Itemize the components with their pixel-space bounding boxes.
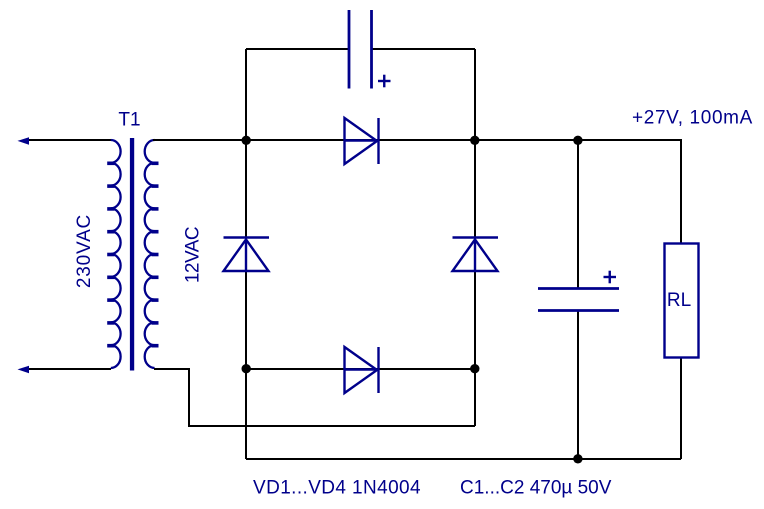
transformer T1 secondary winding	[145, 140, 155, 368]
node B junction (top right bridge)	[470, 136, 479, 145]
svg-text:12VAC: 12VAC	[183, 227, 204, 283]
diode VD2 (left, pointing up)	[224, 238, 270, 272]
wire: secondary top to node A	[153, 139, 246, 141]
wire: top loop right segment	[372, 48, 476, 50]
node junction C2 bottom	[573, 454, 582, 463]
node junction bottom left bridge	[242, 364, 251, 373]
polarity + of C1	[378, 75, 391, 88]
capacitor C1	[349, 10, 372, 89]
wire: right bridge leg vertical	[474, 49, 476, 426]
svg-text:RL: RL	[667, 290, 691, 311]
polarity + of C2	[604, 271, 617, 284]
node A junction (top left bridge)	[242, 136, 251, 145]
wire: bottom diode row	[246, 368, 475, 370]
diode VD3 (right, pointing up)	[453, 238, 499, 272]
wire: left bridge leg vertical	[245, 49, 247, 459]
node junction C2 top	[573, 136, 582, 145]
arrow terminal bottom-left	[18, 366, 30, 374]
wire: secondary bottom return	[154, 369, 475, 426]
wire: top rail node A to RL corner	[246, 140, 681, 244]
diode VD1 (top, pointing right)	[345, 118, 379, 164]
svg-text:T1: T1	[118, 110, 140, 131]
wire: mains top lead	[27, 139, 111, 141]
svg-text:VD1...VD4 1N4004: VD1...VD4 1N4004	[253, 478, 421, 499]
transformer T1 primary winding	[111, 140, 121, 368]
transformer T1 secondary cusp ticks	[152, 163, 159, 345]
diode VD4 (bottom, pointing right)	[345, 347, 379, 393]
svg-text:+27V, 100mA: +27V, 100mA	[632, 108, 753, 129]
wire: C2 top branch	[577, 140, 579, 289]
capacitor C2	[538, 289, 619, 311]
wire: C2 bottom branch	[577, 311, 579, 460]
svg-text:C1...C2 470µ 50V: C1...C2 470µ 50V	[460, 478, 612, 499]
wire: mains bottom lead	[27, 368, 111, 370]
svg-text:230VAC: 230VAC	[74, 214, 95, 288]
transformer T1 core	[130, 138, 134, 371]
arrow terminal top-left	[18, 137, 30, 145]
wire: bottom rail	[246, 458, 681, 460]
wire: RL bottom lead	[680, 358, 682, 460]
transformer T1 primary cusp ticks	[107, 163, 114, 345]
node junction bottom right bridge	[470, 364, 479, 373]
resistor RL	[665, 244, 699, 358]
wire: top loop left segment	[246, 48, 349, 50]
